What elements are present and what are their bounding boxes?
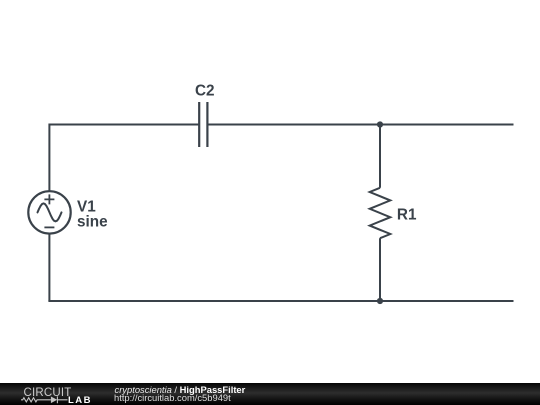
wire: resistor branch top segment from node down to R1 [379,124,381,188]
logo wire with resistor zigzag and diode [21,396,68,403]
voltage source V1 plus polarity mark [44,194,54,204]
CircuitLab logo wordmark [0,383,105,405]
resistor R1 zigzag body [370,188,391,238]
voltage source V1 circle body [28,191,70,233]
svg-text:C2: C2 [195,82,215,99]
svg-text:CIRCUIT: CIRCUIT [24,387,72,399]
voltage source V1 sine waveform [38,203,62,221]
wire: left vertical from V1 bottom terminal down to bottom corner [48,234,50,301]
capacitor C2 right plate [206,102,208,147]
wire: bottom net from left corner to right open end [49,301,513,302]
wire: left vertical from top corner down to V1 top terminal [48,124,50,192]
wire: top net from left corner to capacitor left plate [49,124,199,126]
wire: resistor branch bottom segment from R1 down to bottom node [379,238,381,302]
svg-text:R1: R1 [397,206,417,223]
logo diode triangle [51,397,57,404]
footer credit line 2 [114,392,231,403]
wire: top net from capacitor right plate to right open end [207,124,513,126]
footer credit line 1 [115,384,246,395]
voltage source V1 minus polarity mark [44,226,54,228]
node junction dot (bottom, at R1/bottom net tee) [377,298,383,304]
capacitor C2 left plate [198,102,200,147]
svg-text:sine: sine [77,213,108,230]
footer black banner [0,383,540,405]
svg-text:LAB: LAB [68,395,92,405]
node junction dot (top, at C2/R1 tee) [377,121,383,127]
